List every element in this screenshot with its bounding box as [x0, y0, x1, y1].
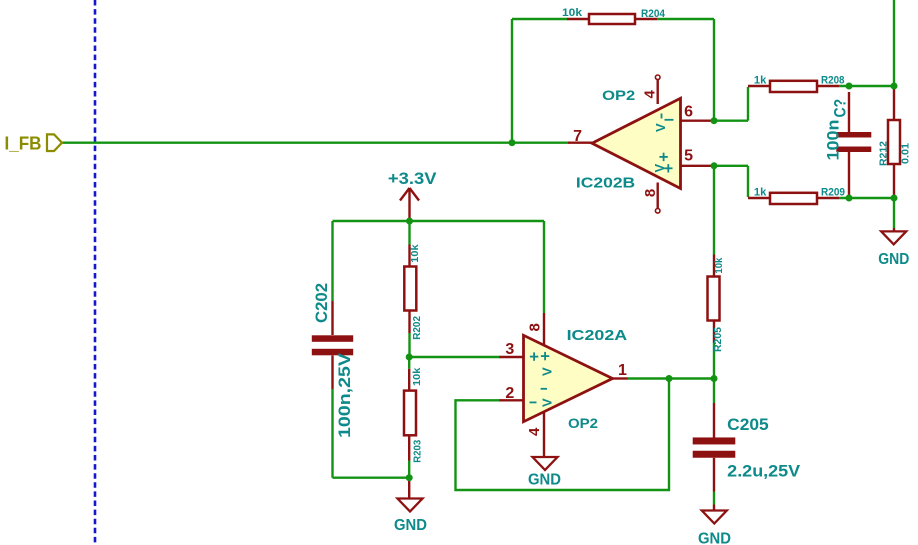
svg-text:0.01: 0.01: [900, 143, 912, 164]
svg-text:I_FB: I_FB: [5, 134, 42, 154]
svg-text:100n: 100n: [824, 120, 843, 161]
svg-text:R212: R212: [878, 141, 890, 166]
svg-text:8: 8: [642, 189, 659, 197]
svg-text:V: V: [653, 123, 668, 132]
svg-text:IC202B: IC202B: [576, 175, 635, 192]
svg-text:R208: R208: [821, 75, 845, 87]
svg-text:GND: GND: [878, 251, 909, 268]
svg-text:100n,25V: 100n,25V: [335, 352, 354, 438]
svg-text:3: 3: [505, 341, 514, 358]
svg-text:IC202A: IC202A: [567, 327, 628, 344]
svg-text:R202: R202: [411, 316, 423, 340]
svg-text:V: V: [540, 398, 555, 407]
svg-text:10k: 10k: [562, 7, 583, 19]
svg-text:1: 1: [618, 362, 627, 379]
svg-text:GND: GND: [394, 517, 427, 534]
svg-text:7: 7: [573, 128, 582, 145]
svg-text:10k: 10k: [411, 367, 423, 386]
svg-text:C205: C205: [727, 415, 769, 434]
svg-text:OP2: OP2: [602, 87, 635, 103]
svg-text:+3.3V: +3.3V: [388, 169, 437, 188]
svg-text:2: 2: [505, 385, 514, 402]
svg-text:C?: C?: [831, 99, 850, 118]
svg-text:OP2: OP2: [568, 415, 598, 431]
svg-text:5: 5: [684, 148, 693, 165]
svg-text:4: 4: [526, 427, 543, 436]
svg-text:6: 6: [684, 103, 693, 120]
svg-text:10k: 10k: [409, 244, 421, 262]
svg-text:1k: 1k: [754, 75, 767, 87]
svg-text:GND: GND: [698, 531, 731, 545]
svg-text:GND: GND: [528, 472, 561, 489]
svg-text:R204: R204: [641, 8, 666, 20]
svg-text:2.2u,25V: 2.2u,25V: [727, 462, 801, 481]
svg-text:V: V: [540, 367, 555, 376]
svg-text:R205: R205: [712, 327, 724, 352]
svg-text:10k: 10k: [713, 257, 725, 273]
svg-text:R209: R209: [821, 187, 845, 199]
svg-text:1k: 1k: [754, 187, 767, 199]
svg-text:R203: R203: [412, 440, 424, 463]
svg-text:4: 4: [642, 90, 659, 99]
svg-text:8: 8: [527, 323, 544, 331]
svg-text:C202: C202: [312, 283, 331, 323]
